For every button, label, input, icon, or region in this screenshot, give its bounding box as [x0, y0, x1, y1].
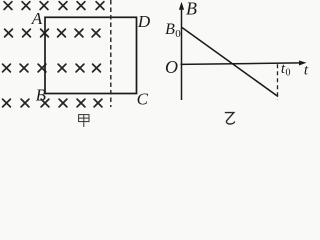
svg-text:B: B	[186, 0, 197, 19]
svg-text:0: 0	[175, 28, 181, 40]
field cross r4c5	[77, 99, 85, 107]
field cross r2c4	[58, 29, 66, 37]
svg-text:t: t	[304, 63, 309, 79]
field cross r3c5	[76, 64, 84, 72]
B axis arrowhead	[179, 2, 184, 10]
caption yi (right figure)	[225, 113, 235, 124]
svg-text:0: 0	[286, 68, 291, 79]
field cross r4c4	[59, 99, 67, 107]
field cross r1c4	[59, 2, 67, 10]
field cross r3c3	[38, 64, 46, 72]
field cross r1c2	[22, 2, 30, 10]
field cross r3c2	[20, 64, 28, 72]
dashed line at t0	[277, 64, 279, 99]
field cross r1c6	[96, 2, 104, 10]
field cross r2c5	[75, 29, 83, 37]
field cross r3c6	[93, 64, 101, 72]
field cross r2c2	[23, 29, 31, 37]
field cross r1c3	[40, 2, 48, 10]
field cross r2c6	[92, 29, 100, 37]
svg-text:C: C	[137, 90, 149, 109]
field cross r4c1	[3, 99, 11, 107]
svg-text:B: B	[36, 86, 47, 105]
field cross r4c2	[21, 99, 29, 107]
svg-text:O: O	[165, 57, 178, 77]
field cross r4c6	[94, 99, 102, 107]
field cross r2c1	[5, 29, 13, 37]
t axis (horizontal)	[181, 63, 301, 65]
caption jia (left figure)	[79, 115, 89, 127]
field boundary dashed line	[110, 0, 112, 107]
field cross r4c3	[41, 99, 49, 107]
B-t line	[182, 28, 278, 97]
t axis arrowhead	[299, 61, 307, 66]
svg-text:A: A	[31, 9, 43, 28]
conducting loop ABCD	[45, 17, 137, 93]
svg-text:D: D	[137, 12, 151, 31]
field cross r3c4	[58, 64, 66, 72]
field cross r1c1	[4, 2, 12, 10]
field cross r3c1	[3, 64, 11, 72]
svg-text:B: B	[165, 21, 175, 38]
field cross r1c5	[77, 2, 85, 10]
B axis (vertical)	[181, 8, 183, 100]
field cross r2c3	[41, 29, 49, 37]
